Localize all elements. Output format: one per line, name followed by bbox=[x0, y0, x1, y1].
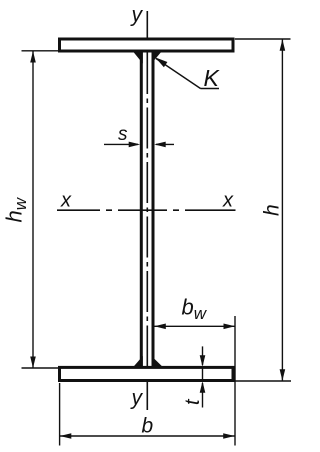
y axis centerline (vertical) bbox=[146, 11, 148, 410]
K leader tail bbox=[201, 88, 220, 90]
dimension s : left arrowhead bbox=[129, 142, 141, 148]
dimension h_w : extension line top bbox=[22, 50, 59, 52]
K leader arrow diagonal bbox=[156, 59, 201, 89]
svg-text:s: s bbox=[118, 124, 128, 145]
dimension t : lower line bbox=[202, 383, 204, 408]
dimension h_w : arrowhead down bbox=[30, 357, 36, 369]
dimension h : extension line bottom bbox=[235, 380, 291, 382]
svg-text:x: x bbox=[222, 190, 234, 212]
dimension b : right arrowhead bbox=[223, 433, 235, 439]
dimension t : upper line bbox=[202, 346, 204, 365]
dimension b_w / b : right extension line bbox=[234, 316, 236, 446]
weld fillet top-left bbox=[132, 51, 143, 64]
weld fillet top-right (K) bbox=[152, 51, 163, 64]
dimension b_w : left arrowhead bbox=[154, 324, 166, 330]
dimension s : right arrowhead bbox=[154, 142, 166, 148]
bottom flange bbox=[60, 367, 234, 380]
dimension t : lower arrowhead (up) bbox=[200, 381, 206, 393]
dimension h : arrowhead down bbox=[280, 369, 286, 381]
web left line bbox=[140, 51, 143, 368]
svg-text:K: K bbox=[204, 65, 221, 91]
dimension h_w : extension line bottom bbox=[22, 367, 59, 369]
svg-text:x: x bbox=[60, 190, 72, 212]
x axis centerline (horizontal) bbox=[57, 209, 236, 211]
svg-text:h: h bbox=[261, 204, 284, 216]
dimension b : dimension line bbox=[60, 435, 235, 437]
dimension b_w : dimension line bbox=[155, 325, 236, 327]
svg-text:y: y bbox=[130, 387, 144, 410]
dimension h : extension line top bbox=[235, 38, 291, 40]
dimension b : left arrowhead bbox=[60, 433, 72, 439]
dimension h_w : dimension line bbox=[32, 52, 34, 368]
svg-text:b: b bbox=[142, 415, 154, 438]
weld fillet bottom-left bbox=[133, 356, 143, 368]
K leader arrowhead bbox=[155, 57, 167, 67]
dimension b_w : right arrowhead bbox=[224, 324, 236, 330]
web right line bbox=[152, 51, 155, 368]
dimension t : upper arrowhead (down) bbox=[200, 355, 206, 367]
svg-text:y: y bbox=[130, 4, 144, 27]
dimension b : left extension line bbox=[59, 383, 61, 446]
dimension h : dimension line bbox=[281, 40, 283, 381]
dimension h_w : arrowhead up bbox=[30, 51, 36, 63]
weld fillet bottom-right bbox=[152, 356, 164, 368]
dimension s : right line bbox=[156, 143, 174, 145]
dimension t : line through flange bbox=[202, 366, 204, 382]
dimension s : left line bbox=[104, 143, 138, 145]
dimension h : arrowhead up bbox=[280, 39, 286, 51]
top flange bbox=[60, 39, 234, 51]
